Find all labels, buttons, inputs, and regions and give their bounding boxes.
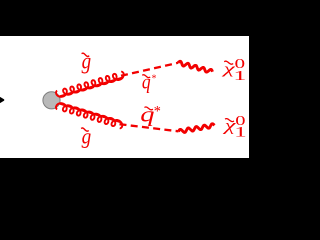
gluino g~ upper: straight line through curls xyxy=(59,77,123,96)
label q~* upper: tilde xyxy=(142,75,150,78)
gluino g~ lower: curly line xyxy=(56,103,122,128)
label g~ lower: tilde xyxy=(81,128,89,131)
squark q~* lower: dashed propagator xyxy=(120,124,179,131)
label chi10 lower: tilde xyxy=(225,119,234,122)
label q~* lower: tilde xyxy=(144,107,153,110)
squark q~* upper: dashed propagator xyxy=(121,63,178,76)
svg-text:1: 1 xyxy=(233,68,246,83)
svg-text:1: 1 xyxy=(234,124,247,140)
svg-text:q: q xyxy=(140,102,155,127)
neutralino chi_1^0 lower: wavy line xyxy=(179,124,215,133)
incoming beam stub xyxy=(0,97,4,103)
svg-text:*: * xyxy=(152,74,157,85)
svg-text:g: g xyxy=(82,125,92,148)
interaction blob xyxy=(43,92,60,109)
svg-text:q: q xyxy=(142,71,151,94)
label g~ upper: tilde xyxy=(82,53,90,56)
neutralino chi_1^0 upper: wavy line xyxy=(178,61,213,72)
white diagram band xyxy=(0,36,249,158)
gluino g~ upper: curly line xyxy=(56,72,124,97)
gluino g~ lower: straight line through curls xyxy=(59,103,122,122)
svg-text:*: * xyxy=(154,103,161,119)
svg-text:g: g xyxy=(82,48,91,74)
black letterbox background xyxy=(0,0,249,200)
label chi10 upper: tilde xyxy=(224,61,233,64)
